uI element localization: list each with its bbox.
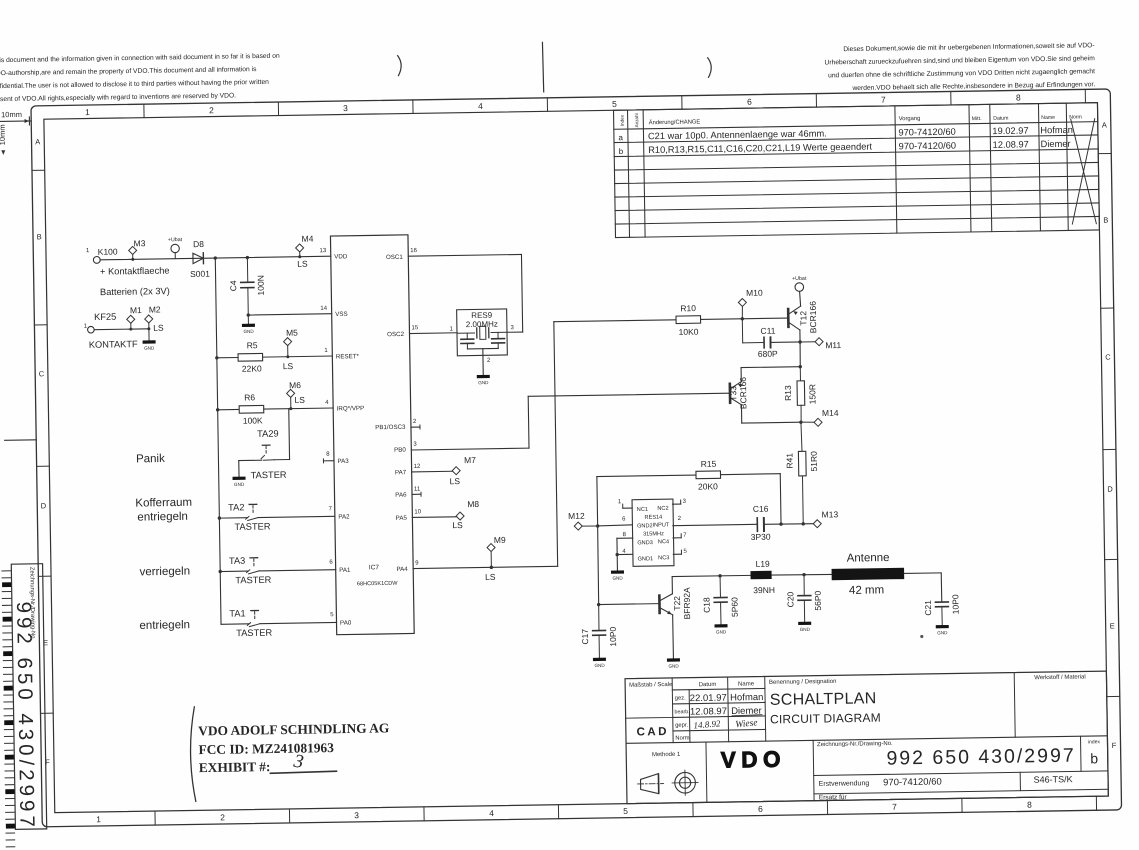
svg-text:Ersatz für: Ersatz für [819,794,848,801]
svg-text:Norm: Norm [675,735,689,741]
svg-text:LS: LS [294,395,305,405]
svg-text:NC2: NC2 [657,506,668,512]
svg-text:PB0: PB0 [394,447,406,454]
svg-text:GND1: GND1 [638,556,654,562]
junction T12emitter-M11 [798,340,801,343]
wire KF25 line [94,328,149,331]
junction M12 [596,524,599,527]
wire to T22 base [599,603,659,606]
svg-text:1: 1 [96,814,101,824]
wire OSC1 net [408,254,521,256]
svg-text:RES14: RES14 [645,515,663,521]
svg-text:Vorgang: Vorgang [899,116,921,122]
junction rail-R5 [215,356,218,359]
wire rail segment mid [216,358,219,410]
wire TA29 to ground [239,459,262,461]
svg-text:10: 10 [414,509,421,515]
svg-text:PA6: PA6 [395,492,407,499]
svg-text:E: E [1110,621,1115,630]
ground at TA29 [233,477,246,480]
svg-text:M1: M1 [130,305,142,315]
revision table X cross [1071,119,1097,224]
svg-text:BFR92A: BFR92A [682,587,693,620]
node M2 [145,315,153,323]
switch TA2 [219,517,247,519]
svg-text:R41: R41 [784,453,794,469]
svg-text:R6: R6 [244,392,255,402]
wire T22 collector to L19 [672,575,750,576]
svg-text:C18: C18 [701,597,711,613]
svg-text:C: C [1105,352,1111,361]
wire OSC2 net [409,332,456,335]
resonator RES9 box [457,309,508,356]
junction rail-TA2 [218,516,221,519]
wire TA29 to M6 [274,459,289,461]
title block outline [625,671,1108,804]
capacitor left in RES9 [466,333,468,339]
svg-text:F: F [1112,741,1117,750]
ground at RES9 [477,375,490,378]
power +Ubat terminal at T12 [795,283,804,292]
IC U1 IC7 68HC05K1CDW box [330,235,414,635]
svg-text:15: 15 [411,325,418,331]
svg-text:56P0: 56P0 [813,590,823,610]
resistor R15 [597,475,696,477]
switch TA3 [220,570,248,572]
svg-text:GND: GND [243,329,254,334]
svg-text:T33: T33 [728,386,738,401]
svg-text:7: 7 [881,95,886,105]
svg-text:C17: C17 [580,629,590,645]
svg-text:150R: 150R [807,384,817,404]
pin stub RES14 pin5 [673,553,681,555]
svg-text:TASTER: TASTER [234,521,270,532]
svg-text:GND: GND [716,629,727,634]
frame column separators [143,104,145,117]
junction R13 top [799,365,802,368]
svg-text:LS: LS [485,572,496,582]
wire rail segment top [215,258,217,358]
svg-text:5: 5 [623,806,628,816]
pin stub PA6 [412,493,421,495]
capacitor C21 [935,601,948,603]
projection circle symbol [675,772,696,793]
svg-text:680P: 680P [758,349,778,359]
wire rail segment 5 [219,572,222,625]
svg-text:S001: S001 [190,269,210,279]
svg-text:BCR166: BCR166 [738,377,749,410]
svg-text:C: C [39,369,45,378]
svg-text:7: 7 [892,802,897,812]
wire RES14 gnd link [616,538,619,570]
resistor R41 [801,422,802,451]
svg-text:b: b [619,147,624,156]
svg-text:R5: R5 [247,340,258,350]
wire junction to T33 collector [741,366,800,369]
capacitor C17 [598,605,601,631]
svg-text:TASTER: TASTER [235,575,271,586]
wire C16 to M13 [764,523,813,526]
svg-text:315MHz: 315MHz [643,531,664,537]
svg-text:970-74120/60: 970-74120/60 [883,777,942,789]
svg-text:IRQ*/VPP: IRQ*/VPP [337,405,365,412]
svg-text:KONTAKTF: KONTAKTF [89,339,138,350]
svg-text:GND: GND [594,663,605,668]
divider S46 [1019,772,1021,790]
svg-text:2: 2 [209,105,214,115]
wire TA2 to PA2 [258,516,335,517]
svg-text:gepr.: gepr. [675,723,688,729]
svg-text:992 650 430/2997: 992 650 430/2997 [886,745,1076,770]
svg-text:6: 6 [758,804,763,814]
svg-text:10K0: 10K0 [678,327,698,337]
svg-text:6: 6 [747,97,752,107]
junction battery-rail [214,256,217,259]
antenna element 42mm [832,568,905,580]
wire R10 left [554,320,676,322]
row line erstverwendung [814,771,1108,776]
pin stub PA3 [323,460,333,462]
svg-text:100N: 100N [256,275,266,295]
svg-text:D: D [1107,484,1113,493]
wire PA4 net [413,566,557,568]
wire M12 to RES14 pin6 [598,525,633,526]
svg-text:GND: GND [612,576,623,581]
wire antenna to C21 [904,572,941,575]
svg-text:RESET*: RESET* [336,353,360,360]
svg-text:Erstverwendung: Erstverwendung [819,780,870,788]
junction T22 base [597,603,600,606]
svg-text:+Ubat: +Ubat [792,276,807,282]
revision table row lines [614,122,1098,130]
junction M14 [799,420,802,423]
svg-text:51R0: 51R0 [809,451,819,472]
switch TA1 [221,623,249,625]
svg-text:42 mm: 42 mm [849,584,884,597]
wire rail segment 3 [218,410,220,518]
svg-text:GND: GND [478,380,489,385]
svg-text:OSC2: OSC2 [387,331,405,338]
svg-text:b: b [1090,750,1098,766]
revision table box [614,103,1100,238]
svg-text:D: D [41,501,47,510]
resistor R13 [799,367,801,382]
svg-text:Index: Index [620,114,625,126]
svg-text:TA2: TA2 [228,502,245,512]
node M9 [487,543,495,551]
svg-text:13: 13 [319,248,326,254]
pin stub RES14 pin4 [617,553,633,555]
svg-text:TASTER: TASTER [236,628,272,639]
svg-text:M8: M8 [467,499,479,509]
ground at C17 [593,658,606,661]
wire L19 to antenna [772,574,832,575]
junction R15-C16line [779,522,782,525]
svg-text:R10: R10 [680,303,696,313]
wire VSS line [248,314,331,315]
title block benennung divider [765,676,766,741]
svg-text:A: A [35,137,40,146]
svg-text:LS: LS [450,476,461,486]
svg-text:16: 16 [410,248,417,254]
svg-text:CIRCUIT DIAGRAM: CIRCUIT DIAGRAM [770,711,881,727]
title block mid divider [626,736,1107,744]
ground at RES14 [611,570,624,573]
svg-text:22K0: 22K0 [242,363,262,373]
svg-text:Mitt.: Mitt. [972,116,982,122]
pin stub RES14 pin3 [673,503,681,505]
junction rail-TA3 [218,570,221,573]
svg-text:12.08.97: 12.08.97 [690,706,727,718]
revision table column lines [628,110,630,237]
svg-text:TA29: TA29 [257,429,279,439]
svg-text:C4: C4 [228,280,238,291]
svg-text:PA0: PA0 [340,620,352,627]
ground at C4 [247,315,249,324]
node M3 [129,246,137,254]
svg-text:BCR166: BCR166 [808,301,819,334]
svg-text:LS: LS [153,323,164,333]
left margin ruler strip [2,570,11,572]
svg-text:10mm: 10mm [0,124,7,145]
wire PB0 net [411,448,529,450]
row line ersatz [814,789,1108,794]
wire PA7 to M7 [412,470,452,473]
svg-text:Hofman: Hofman [1040,125,1073,136]
svg-text:14: 14 [320,306,327,312]
svg-text:PA5: PA5 [396,515,408,522]
capacitor right in RES9 [497,332,499,338]
svg-text:PA2: PA2 [338,513,350,520]
svg-text:NC4: NC4 [658,539,669,545]
svg-text:10P0: 10P0 [608,626,618,646]
svg-text:bearb.: bearb. [674,709,689,715]
svg-text:M12: M12 [568,511,585,521]
svg-text:992 650 430/2997: 992 650 430/2997 [12,601,39,831]
svg-text:Panik: Panik [136,453,165,465]
svg-text:PA3: PA3 [337,458,349,465]
junction battery-C4 [246,256,249,259]
node M1 [127,315,135,323]
svg-text:Änderung/CHANGE: Änderung/CHANGE [649,118,701,126]
svg-text:R15: R15 [701,459,717,469]
diode D8 [193,253,204,264]
drawing frame inner border [44,103,1108,813]
svg-text:+Ubat: +Ubat [168,237,183,243]
svg-text:L19: L19 [755,559,770,569]
svg-text:T12: T12 [798,311,808,326]
junction R41-antenna line [802,573,805,576]
wire R15 down to C16 line [779,474,782,524]
svg-text:970-74120/60: 970-74120/60 [898,127,956,138]
FCC stamp bracket [190,707,196,802]
node M12 [574,522,582,530]
svg-text:D8: D8 [193,239,204,249]
svg-text:C21: C21 [923,600,933,616]
junction C18 [718,574,721,577]
svg-text:Maßstab / Scale: Maßstab / Scale [629,682,673,689]
svg-text:CAD: CAD [636,726,669,739]
scan mark arc 2 [708,58,712,78]
ground at C20 [798,622,811,625]
svg-text:IC7: IC7 [369,564,380,571]
FCC exhibit underline [270,771,336,773]
svg-text:Batterien (2x 3V): Batterien (2x 3V) [100,286,170,297]
node M8 [456,512,464,520]
svg-text:3: 3 [343,103,348,113]
wire PA5 to M8 [412,516,456,519]
wire TA3 to PA1 [259,570,336,571]
svg-text:TA1: TA1 [229,608,246,618]
terminal KF25 pin 1 [88,326,95,333]
svg-text:VDO ADOLF SCHINDLING AG: VDO ADOLF SCHINDLING AG [198,720,390,738]
svg-text:Name: Name [738,681,755,687]
svg-text:M5: M5 [286,328,298,338]
svg-text:PA4: PA4 [396,566,408,573]
transistor Q T12 BCR166 [787,309,790,327]
svg-text:2: 2 [220,812,225,822]
svg-text:M11: M11 [825,340,841,350]
ground at KF25 [148,329,150,341]
capacitor C18 [719,576,721,598]
svg-text:4: 4 [478,101,483,111]
ground at T22 emitter [667,658,680,661]
title block date grid [672,678,673,743]
svg-text:SCHALTPLAN: SCHALTPLAN [770,690,877,709]
wire T33 emitter down [740,405,742,423]
wire C11 to M11 junction [770,341,800,343]
svg-text:Kofferraum: Kofferraum [135,497,192,510]
svg-text:GND2: GND2 [637,523,653,529]
wire RES9 pin2 to ground [482,355,484,375]
svg-text:VDO: VDO [721,747,787,773]
title block werkstoff divider [1014,673,1015,738]
pin stub RES14 pin8 [617,537,633,539]
svg-text:PA7: PA7 [395,469,407,476]
junction R41-C16line [802,522,805,525]
capacitor C11 [741,319,743,343]
capacitor C16 [756,518,758,531]
svg-text:LS: LS [297,259,308,269]
svg-text:T22: T22 [672,596,682,611]
node M7 [452,467,460,475]
wire R10 to T12 base [701,318,788,319]
transistor Q T22 BFR92A [658,596,661,613]
node M13 [813,520,821,528]
svg-text:8: 8 [1027,800,1032,810]
svg-text:4: 4 [489,808,494,818]
svg-text:Diemer: Diemer [1041,139,1071,149]
svg-text:GND3: GND3 [637,540,653,546]
title block methode divider [705,742,708,802]
resistor R10 [676,316,701,324]
svg-text:8: 8 [1016,92,1021,102]
node M4 [296,244,304,252]
junction C4-VSS [247,313,250,316]
junction RES14 pin4 [615,553,618,556]
svg-text:LS: LS [452,520,463,530]
svg-text:20K0: 20K0 [698,481,718,491]
capacitor C4 [246,258,248,283]
ground at C18 [714,624,727,627]
resistor R5 [217,357,238,359]
wire RES14 pin2 to C16 [673,524,757,525]
svg-text:3P30: 3P30 [751,532,771,542]
svg-text:A: A [1102,121,1107,130]
svg-text:5: 5 [612,99,617,109]
pin stub PB1/OSC3 [411,426,420,428]
svg-text:5P60: 5P60 [729,597,739,617]
svg-text:M10: M10 [746,288,763,298]
svg-text:11: 11 [414,487,421,493]
node M6 [287,389,295,397]
svg-text:Name: Name [1041,115,1055,121]
svg-text:VDD: VDD [334,253,348,260]
svg-text:entriegeln: entriegeln [139,619,190,632]
svg-text:GND: GND [668,664,679,669]
scan mark arc 1 [398,56,402,76]
svg-text:B: B [1103,216,1108,225]
svg-text:LS: LS [283,361,294,371]
svg-text:PA1: PA1 [339,567,351,574]
node M10 [738,298,746,306]
svg-text:M2: M2 [149,304,161,314]
svg-text:10mm: 10mm [1,110,22,119]
svg-text:TASTER: TASTER [251,470,287,481]
svg-text:GND: GND [937,630,948,635]
svg-text:NC3: NC3 [658,555,669,561]
frame row separators [32,169,45,171]
svg-text:M13: M13 [822,509,839,519]
svg-text:+ Kontaktflaeche: + Kontaktflaeche [100,266,170,277]
svg-text:M4: M4 [302,233,314,243]
junction rail-R6 [216,408,219,411]
pin stub RES14 pin7 [673,537,681,539]
svg-text:19.02.97: 19.02.97 [992,126,1028,137]
svg-text:Datum: Datum [993,116,1008,122]
svg-text:12.08.97: 12.08.97 [993,139,1029,150]
wire M12 junction down [597,526,598,605]
svg-text:OSC1: OSC1 [386,254,404,261]
svg-text:1: 1 [85,107,90,117]
wire M11 to R13 junction [799,342,802,367]
svg-text:B: B [37,232,42,241]
svg-text:Antenne: Antenne [847,552,890,565]
pin stub RES14 pin1 [623,507,632,509]
svg-text:100K: 100K [243,415,263,425]
inductor L19 [750,571,771,580]
svg-text:M14: M14 [822,408,839,418]
svg-text:970-74120/60: 970-74120/60 [899,140,957,151]
svg-text:R13: R13 [783,385,793,401]
index cell [1080,736,1083,771]
crystal inside RES9 [476,328,478,338]
ground at C21 [936,625,949,628]
svg-text:PB1/OSC3: PB1/OSC3 [375,424,406,431]
scan speck [920,635,923,638]
svg-text:10P0: 10P0 [950,594,960,614]
svg-text:TA3: TA3 [229,556,246,566]
svg-text:K100: K100 [98,247,118,257]
svg-text:Zeichnungs-Nr./Drawing-No.: Zeichnungs-Nr./Drawing-No. [817,741,893,748]
svg-text:C16: C16 [753,504,769,514]
svg-text:22.01.97: 22.01.97 [690,693,727,705]
svg-text:EXHIBIT #:: EXHIBIT #: [199,759,271,775]
svg-text:Wiese: Wiese [735,718,758,730]
svg-text:GND: GND [800,627,811,632]
svg-text:Methode 1: Methode 1 [652,752,681,758]
svg-text:Datum: Datum [699,682,717,688]
